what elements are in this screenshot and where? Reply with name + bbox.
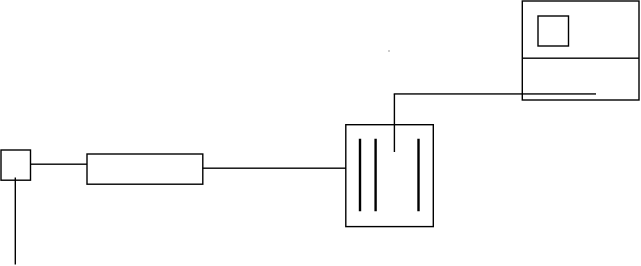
ground wire (14, 178, 16, 265)
device box U1 (522, 1, 639, 100)
left terminal box (1, 150, 31, 180)
divider line (522, 57, 639, 59)
wire (394, 93, 596, 95)
wire (30, 163, 88, 165)
stray dot (388, 50, 389, 51)
battery plate 1 (359, 139, 361, 211)
battery plate 3 (417, 139, 419, 211)
battery box BT1 (346, 125, 434, 227)
battery plate 2 (374, 139, 376, 211)
wire (393, 94, 395, 152)
wire (202, 167, 346, 169)
resistor R1 (87, 154, 203, 184)
indicator square (538, 16, 569, 46)
